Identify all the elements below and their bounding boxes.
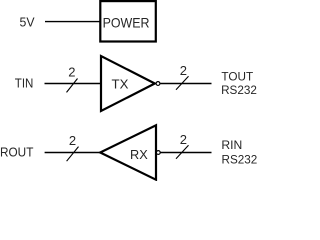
inversion bubble TX output: [156, 82, 160, 86]
bus slash TIN: [67, 79, 78, 93]
svg-text:ROUT: ROUT: [0, 145, 33, 160]
svg-text:TX: TX: [112, 76, 129, 91]
svg-text:2: 2: [180, 63, 187, 78]
bus slash TOUT: [176, 76, 189, 90]
svg-text:RX: RX: [130, 147, 148, 162]
bus slash ROUT: [67, 147, 79, 162]
buffer U3 RX: [100, 125, 156, 179]
svg-text:2: 2: [180, 132, 187, 147]
svg-text:2: 2: [68, 64, 75, 79]
svg-text:POWER: POWER: [103, 14, 150, 30]
svg-text:RS232: RS232: [221, 83, 257, 97]
svg-text:TOUT: TOUT: [221, 70, 253, 84]
wire TX output to TOUT: [160, 83, 211, 85]
wire TIN to TX input: [45, 83, 102, 85]
wire 5V to POWER: [45, 21, 100, 23]
wire RIN to RX bubble: [161, 152, 212, 154]
power block U1 POWER: [100, 1, 156, 41]
inversion bubble RX input: [156, 151, 160, 155]
svg-text:2: 2: [69, 133, 76, 148]
bus slash RIN: [176, 145, 189, 159]
buffer U2 TX: [101, 56, 155, 111]
svg-text:RIN: RIN: [221, 138, 242, 152]
wire ROUT to RX output: [45, 152, 101, 154]
svg-text:5V: 5V: [20, 14, 35, 29]
svg-text:TIN: TIN: [15, 76, 34, 91]
svg-text:RS232: RS232: [222, 152, 258, 166]
